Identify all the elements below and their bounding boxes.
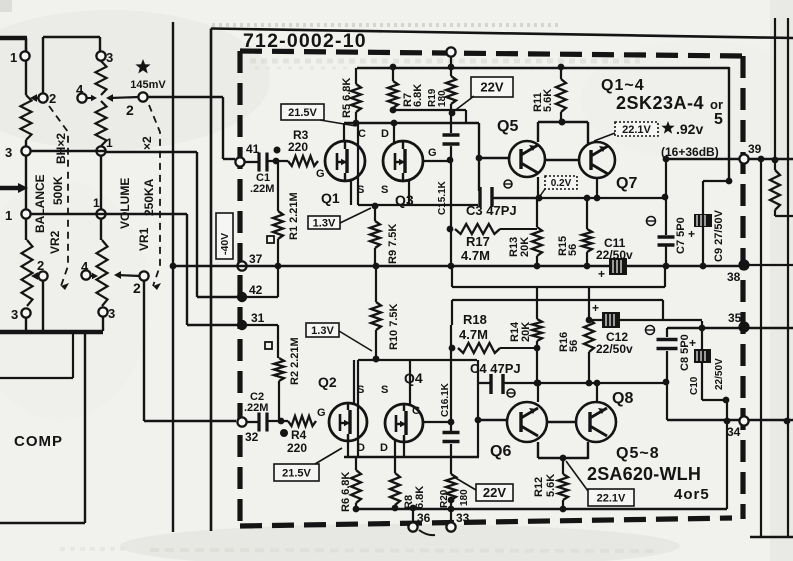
node 34	[739, 416, 748, 425]
terminal 1 VR1 lower	[96, 209, 105, 218]
resistor R9	[374, 206, 376, 221]
svg-text:3: 3	[108, 306, 115, 321]
svg-text:+: +	[598, 267, 605, 281]
svg-text:C3 47PJ: C3 47PJ	[466, 203, 517, 218]
svg-text:Q5~8: Q5~8	[616, 445, 660, 462]
collector rail Q5 Q7	[538, 121, 588, 123]
svg-text:2: 2	[37, 258, 44, 273]
transistor Q4	[385, 404, 423, 442]
svg-text:4.7M: 4.7M	[459, 327, 488, 342]
svg-text:R18: R18	[463, 312, 487, 327]
svg-text:1.3V: 1.3V	[311, 325, 334, 337]
node 34 line	[667, 419, 793, 421]
svg-text:C15.1K: C15.1K	[437, 180, 448, 215]
transistor Q7	[579, 142, 615, 178]
wiper 2 VR2 upper	[38, 93, 47, 102]
svg-text:Q5: Q5	[497, 118, 518, 135]
terminal 3 VR2 bottom	[21, 308, 30, 317]
dashed border left	[237, 51, 242, 527]
svg-text:39: 39	[748, 142, 762, 156]
wire VR1 rail	[100, 155, 102, 210]
wire VR2 rail	[25, 155, 27, 210]
svg-text:R5 6.8K: R5 6.8K	[341, 78, 353, 118]
svg-text:Q1: Q1	[321, 190, 340, 206]
svg-text:22.1V: 22.1V	[597, 492, 626, 504]
node 35 line	[667, 327, 793, 329]
svg-text:R17: R17	[466, 234, 490, 249]
wire vertical rail C	[30, 213, 105, 215]
svg-text:5.6K: 5.6K	[542, 89, 554, 112]
resistor R16	[588, 287, 590, 319]
transistor Q5	[509, 141, 545, 177]
svg-text:.92v: .92v	[676, 121, 703, 137]
capacitor C8	[666, 328, 668, 337]
wire lower-left thick	[0, 330, 103, 335]
package box Q2 Q4	[358, 359, 477, 361]
bus mid rail	[170, 263, 177, 270]
svg-text:2SA620-WLH: 2SA620-WLH	[587, 464, 701, 484]
voltage box 22.1V lower	[588, 489, 634, 506]
wiper 2 VR2 lower	[38, 271, 47, 280]
svg-text:3: 3	[11, 307, 18, 322]
svg-text:33: 33	[456, 511, 470, 525]
capacitor C10	[701, 321, 703, 349]
voltage box 22V upper	[471, 77, 513, 97]
svg-text:1: 1	[93, 196, 100, 210]
wire R7 feed	[393, 109, 466, 111]
wire sources	[350, 181, 352, 205]
svg-text:.22M: .22M	[244, 402, 268, 414]
svg-text:R20: R20	[439, 489, 450, 508]
svg-text:220: 220	[288, 140, 308, 154]
wire base link	[545, 159, 579, 161]
wire bus right	[744, 264, 793, 266]
svg-text:+: +	[688, 227, 695, 241]
resistor R14	[536, 287, 538, 319]
svg-text:1: 1	[5, 208, 12, 223]
square marker upper	[267, 236, 274, 243]
svg-text:S: S	[357, 384, 364, 396]
svg-text:C: C	[358, 128, 366, 140]
voltage box 22V lower	[476, 484, 513, 501]
resistor R5	[355, 68, 357, 84]
svg-text:R6 6.8K: R6 6.8K	[340, 472, 352, 512]
resistor R20 180	[446, 474, 456, 500]
capacitor C4	[477, 360, 479, 383]
output line 39	[666, 158, 793, 160]
svg-text:56: 56	[568, 340, 580, 352]
bus B lower	[451, 269, 453, 287]
svg-text:C4 47PJ: C4 47PJ	[470, 361, 521, 376]
resistor R8	[394, 440, 396, 473]
resistor R6	[355, 457, 357, 470]
resistor R7	[392, 67, 394, 81]
voltage box 1.3V upper	[308, 216, 340, 229]
svg-text:G: G	[412, 405, 421, 417]
capacitor C15	[450, 113, 452, 133]
bottom rail	[356, 508, 727, 510]
capacitor C9 branch	[703, 180, 729, 182]
svg-text:C16.1K: C16.1K	[440, 382, 451, 417]
signal arrow left mid	[0, 186, 20, 191]
svg-text:Q1~4: Q1~4	[601, 77, 645, 94]
svg-text:3: 3	[106, 50, 113, 65]
voltage box 21.5V lower	[274, 464, 319, 481]
wiper 2 VR1 lower right	[139, 271, 148, 280]
wire base link lower	[547, 421, 576, 423]
terminal 1 VR1 mid	[96, 146, 105, 155]
svg-text:R10 7.5K: R10 7.5K	[388, 303, 400, 350]
svg-text:-40V: -40V	[219, 233, 231, 255]
svg-text:C7 5P0: C7 5P0	[675, 217, 687, 254]
square marker lower	[265, 342, 272, 349]
svg-text:+: +	[689, 336, 696, 350]
svg-text:R9 7.5K: R9 7.5K	[387, 224, 399, 264]
capacitor C2	[247, 421, 259, 423]
wiper 4 VR1 lower	[81, 270, 90, 279]
svg-text:Q2: Q2	[318, 374, 337, 390]
svg-text:4.7M: 4.7M	[461, 248, 490, 263]
module outline box	[211, 29, 793, 39]
svg-text:20K: 20K	[519, 237, 531, 257]
svg-text:22V: 22V	[483, 485, 506, 500]
wire vertical rail B	[30, 150, 105, 152]
svg-text:D: D	[357, 442, 365, 454]
resistor R4	[288, 416, 316, 426]
svg-text:R2 2.21M: R2 2.21M	[289, 337, 301, 385]
svg-text:36: 36	[417, 511, 431, 525]
resistor R1	[277, 161, 279, 211]
resistor R19 180	[450, 56, 452, 76]
svg-text:4or5: 4or5	[674, 486, 710, 503]
dashed border top	[240, 51, 743, 56]
voltage box 0.2V	[545, 176, 577, 189]
svg-text:1: 1	[10, 50, 17, 65]
svg-text:.22M: .22M	[250, 183, 274, 195]
pot VR2 section1 element	[25, 60, 27, 95]
package box Q1 Q3	[344, 122, 479, 124]
wiper node 145mV	[138, 92, 147, 101]
svg-text:R4: R4	[291, 428, 307, 442]
wire emitter to C7	[665, 159, 667, 235]
svg-text:G: G	[317, 407, 326, 419]
pot VR1 section1 element	[96, 61, 107, 95]
wire node42 link	[246, 296, 278, 298]
resistor R12	[558, 474, 568, 500]
wire vertical rail A	[172, 22, 174, 532]
svg-text:VR2: VR2	[48, 230, 62, 254]
svg-text:5.6K: 5.6K	[545, 474, 557, 497]
svg-text:6.8K: 6.8K	[412, 84, 424, 107]
svg-text:+: +	[592, 301, 599, 315]
svg-text:VOLUME: VOLUME	[118, 178, 132, 229]
resistor R13	[536, 198, 538, 227]
svg-text:4: 4	[81, 259, 89, 274]
collector rail lower	[538, 457, 588, 459]
wire node31 link	[246, 324, 278, 326]
node 33	[450, 500, 452, 522]
svg-text:VR1: VR1	[137, 227, 151, 251]
transistor Q8	[576, 402, 616, 442]
wire drains lower	[347, 441, 349, 457]
svg-text:Q6: Q6	[490, 443, 511, 460]
node top border	[446, 47, 455, 56]
resistor R11	[560, 67, 562, 79]
resistor right ext	[770, 170, 780, 210]
label star .92v	[661, 121, 674, 134]
resistor R10	[375, 266, 377, 302]
svg-text:34: 34	[727, 425, 741, 439]
resistor R17	[455, 224, 500, 234]
wiper 4 VR1 upper	[77, 93, 86, 102]
svg-text:R12: R12	[533, 477, 545, 497]
wire right margin C	[787, 18, 789, 537]
svg-text:G: G	[428, 147, 437, 159]
wire left stub	[0, 377, 73, 379]
svg-text:×2: ×2	[140, 136, 154, 150]
svg-text:2: 2	[133, 280, 141, 296]
wire input top-left	[0, 36, 27, 41]
resistor R2	[278, 325, 280, 358]
capacitor C3	[478, 187, 481, 207]
dashed border right	[740, 56, 745, 519]
dashed border bottom	[240, 518, 732, 526]
wire drains	[343, 123, 345, 142]
wire C15 column	[450, 160, 452, 266]
capacitor C12 series	[589, 319, 702, 321]
node 31	[237, 320, 247, 330]
svg-text:0.2V: 0.2V	[551, 178, 572, 189]
svg-text:D: D	[380, 442, 388, 454]
svg-text:2SK23A-4: 2SK23A-4	[616, 93, 704, 113]
svg-text:C10: C10	[689, 376, 700, 395]
star marker	[135, 59, 150, 74]
svg-text:22V: 22V	[480, 80, 503, 95]
svg-text:Q3: Q3	[395, 192, 414, 208]
svg-text:6.8K: 6.8K	[414, 486, 426, 509]
wire base feed Q5	[478, 123, 480, 191]
svg-text:37: 37	[249, 252, 263, 266]
capacitor C7	[658, 235, 675, 238]
rail corner right	[728, 67, 730, 181]
node 35	[738, 321, 749, 332]
wire C8 to node34	[666, 383, 668, 420]
svg-text:220: 220	[287, 441, 307, 455]
terminal 1 VR2 top	[20, 51, 29, 60]
svg-text:145mV: 145mV	[130, 79, 166, 91]
svg-text:22/50v: 22/50v	[596, 342, 633, 356]
transistor Q1	[325, 141, 365, 181]
svg-text:COMP: COMP	[14, 433, 63, 450]
wire 145mV to node 41	[148, 96, 223, 98]
wire right margin A	[760, 159, 762, 537]
svg-text:500K: 500K	[51, 176, 65, 205]
wire gate Q3	[423, 160, 448, 162]
voltage box 21.5V upper	[281, 104, 324, 120]
wire gate Q4	[423, 421, 449, 423]
resistor R3	[288, 156, 318, 166]
svg-text:35: 35	[728, 311, 742, 325]
pot VR1 section2 element	[100, 218, 102, 240]
wire base feed Q6	[477, 383, 479, 420]
svg-text:42: 42	[249, 283, 263, 297]
ganged linkage VR1 dashed	[149, 105, 160, 286]
terminal 3 VR1 top	[96, 51, 105, 60]
node 36	[412, 509, 414, 522]
svg-text:Q4: Q4	[404, 370, 423, 386]
terminal 3 VR1 bottom	[98, 307, 107, 316]
emitter line upper	[537, 177, 539, 198]
svg-text:38: 38	[727, 270, 741, 284]
svg-text:4: 4	[76, 82, 84, 97]
svg-text:31: 31	[251, 311, 265, 325]
capacitor C16	[450, 325, 452, 431]
svg-text:D: D	[381, 128, 389, 140]
svg-text:S: S	[357, 184, 364, 196]
svg-text:56: 56	[567, 244, 579, 256]
terminal 3 VR2 mid	[21, 146, 30, 155]
emitter risers lower	[537, 383, 539, 402]
svg-text:22.1V: 22.1V	[622, 124, 651, 136]
svg-text:20K: 20K	[520, 322, 532, 342]
svg-text:3: 3	[5, 145, 12, 160]
capacitor C1	[245, 161, 259, 163]
pot VR2 section2 element	[25, 218, 27, 240]
svg-text:22/50v: 22/50v	[596, 248, 633, 262]
svg-text:C9 27/50V: C9 27/50V	[713, 209, 725, 262]
svg-text:5: 5	[714, 111, 723, 128]
node 42	[237, 292, 247, 302]
node 39	[739, 154, 748, 163]
resistor R15	[586, 198, 588, 229]
svg-text:R1 2.21M: R1 2.21M	[288, 192, 300, 240]
svg-text:250KA: 250KA	[142, 178, 156, 216]
terminal 1 VR2 lower	[21, 209, 30, 218]
transistor Q3	[383, 141, 423, 181]
svg-text:S: S	[381, 384, 388, 396]
svg-text:21.5V: 21.5V	[282, 467, 311, 479]
transistor Q2	[329, 403, 367, 441]
svg-text:180: 180	[437, 90, 448, 107]
svg-text:1.3V: 1.3V	[313, 217, 336, 229]
svg-text:22/50V: 22/50V	[714, 358, 725, 390]
svg-text:BALANCE: BALANCE	[33, 174, 47, 233]
voltage box 22.1V upper	[615, 122, 658, 136]
transistor Q6	[507, 402, 547, 442]
wire volume wiper to node 32	[143, 281, 145, 421]
capacitor C11 series	[609, 258, 627, 275]
voltage box -40V	[216, 213, 233, 259]
svg-text:Q8: Q8	[612, 390, 633, 407]
svg-text:180: 180	[459, 489, 470, 506]
wire sources lower	[353, 360, 355, 403]
voltage box 1.3V lower	[306, 323, 339, 337]
svg-text:2: 2	[126, 102, 134, 118]
line to C12 row	[452, 299, 663, 301]
wire right margin B	[774, 18, 776, 160]
svg-text:2: 2	[49, 91, 56, 106]
svg-text:Q7: Q7	[616, 175, 637, 192]
svg-text:G: G	[316, 168, 325, 180]
svg-text:32: 32	[245, 430, 259, 444]
svg-text:(16+36dB): (16+36dB)	[661, 145, 719, 159]
svg-text:S: S	[381, 184, 388, 196]
svg-text:or: or	[710, 97, 723, 112]
wire comp branch	[84, 334, 86, 523]
rail 22V top	[357, 67, 729, 69]
svg-text:1: 1	[106, 136, 113, 150]
svg-text:BH×2: BH×2	[54, 133, 68, 164]
node 32	[237, 417, 246, 426]
riser bottom rail	[726, 400, 728, 509]
node 37	[237, 261, 246, 270]
ganged linkage VR2 dashed	[49, 106, 68, 286]
node 41	[235, 157, 244, 166]
node 38	[738, 259, 749, 270]
balance feed loop wire	[43, 36, 100, 38]
resistor R18	[458, 343, 500, 353]
svg-text:21.5V: 21.5V	[288, 107, 317, 119]
